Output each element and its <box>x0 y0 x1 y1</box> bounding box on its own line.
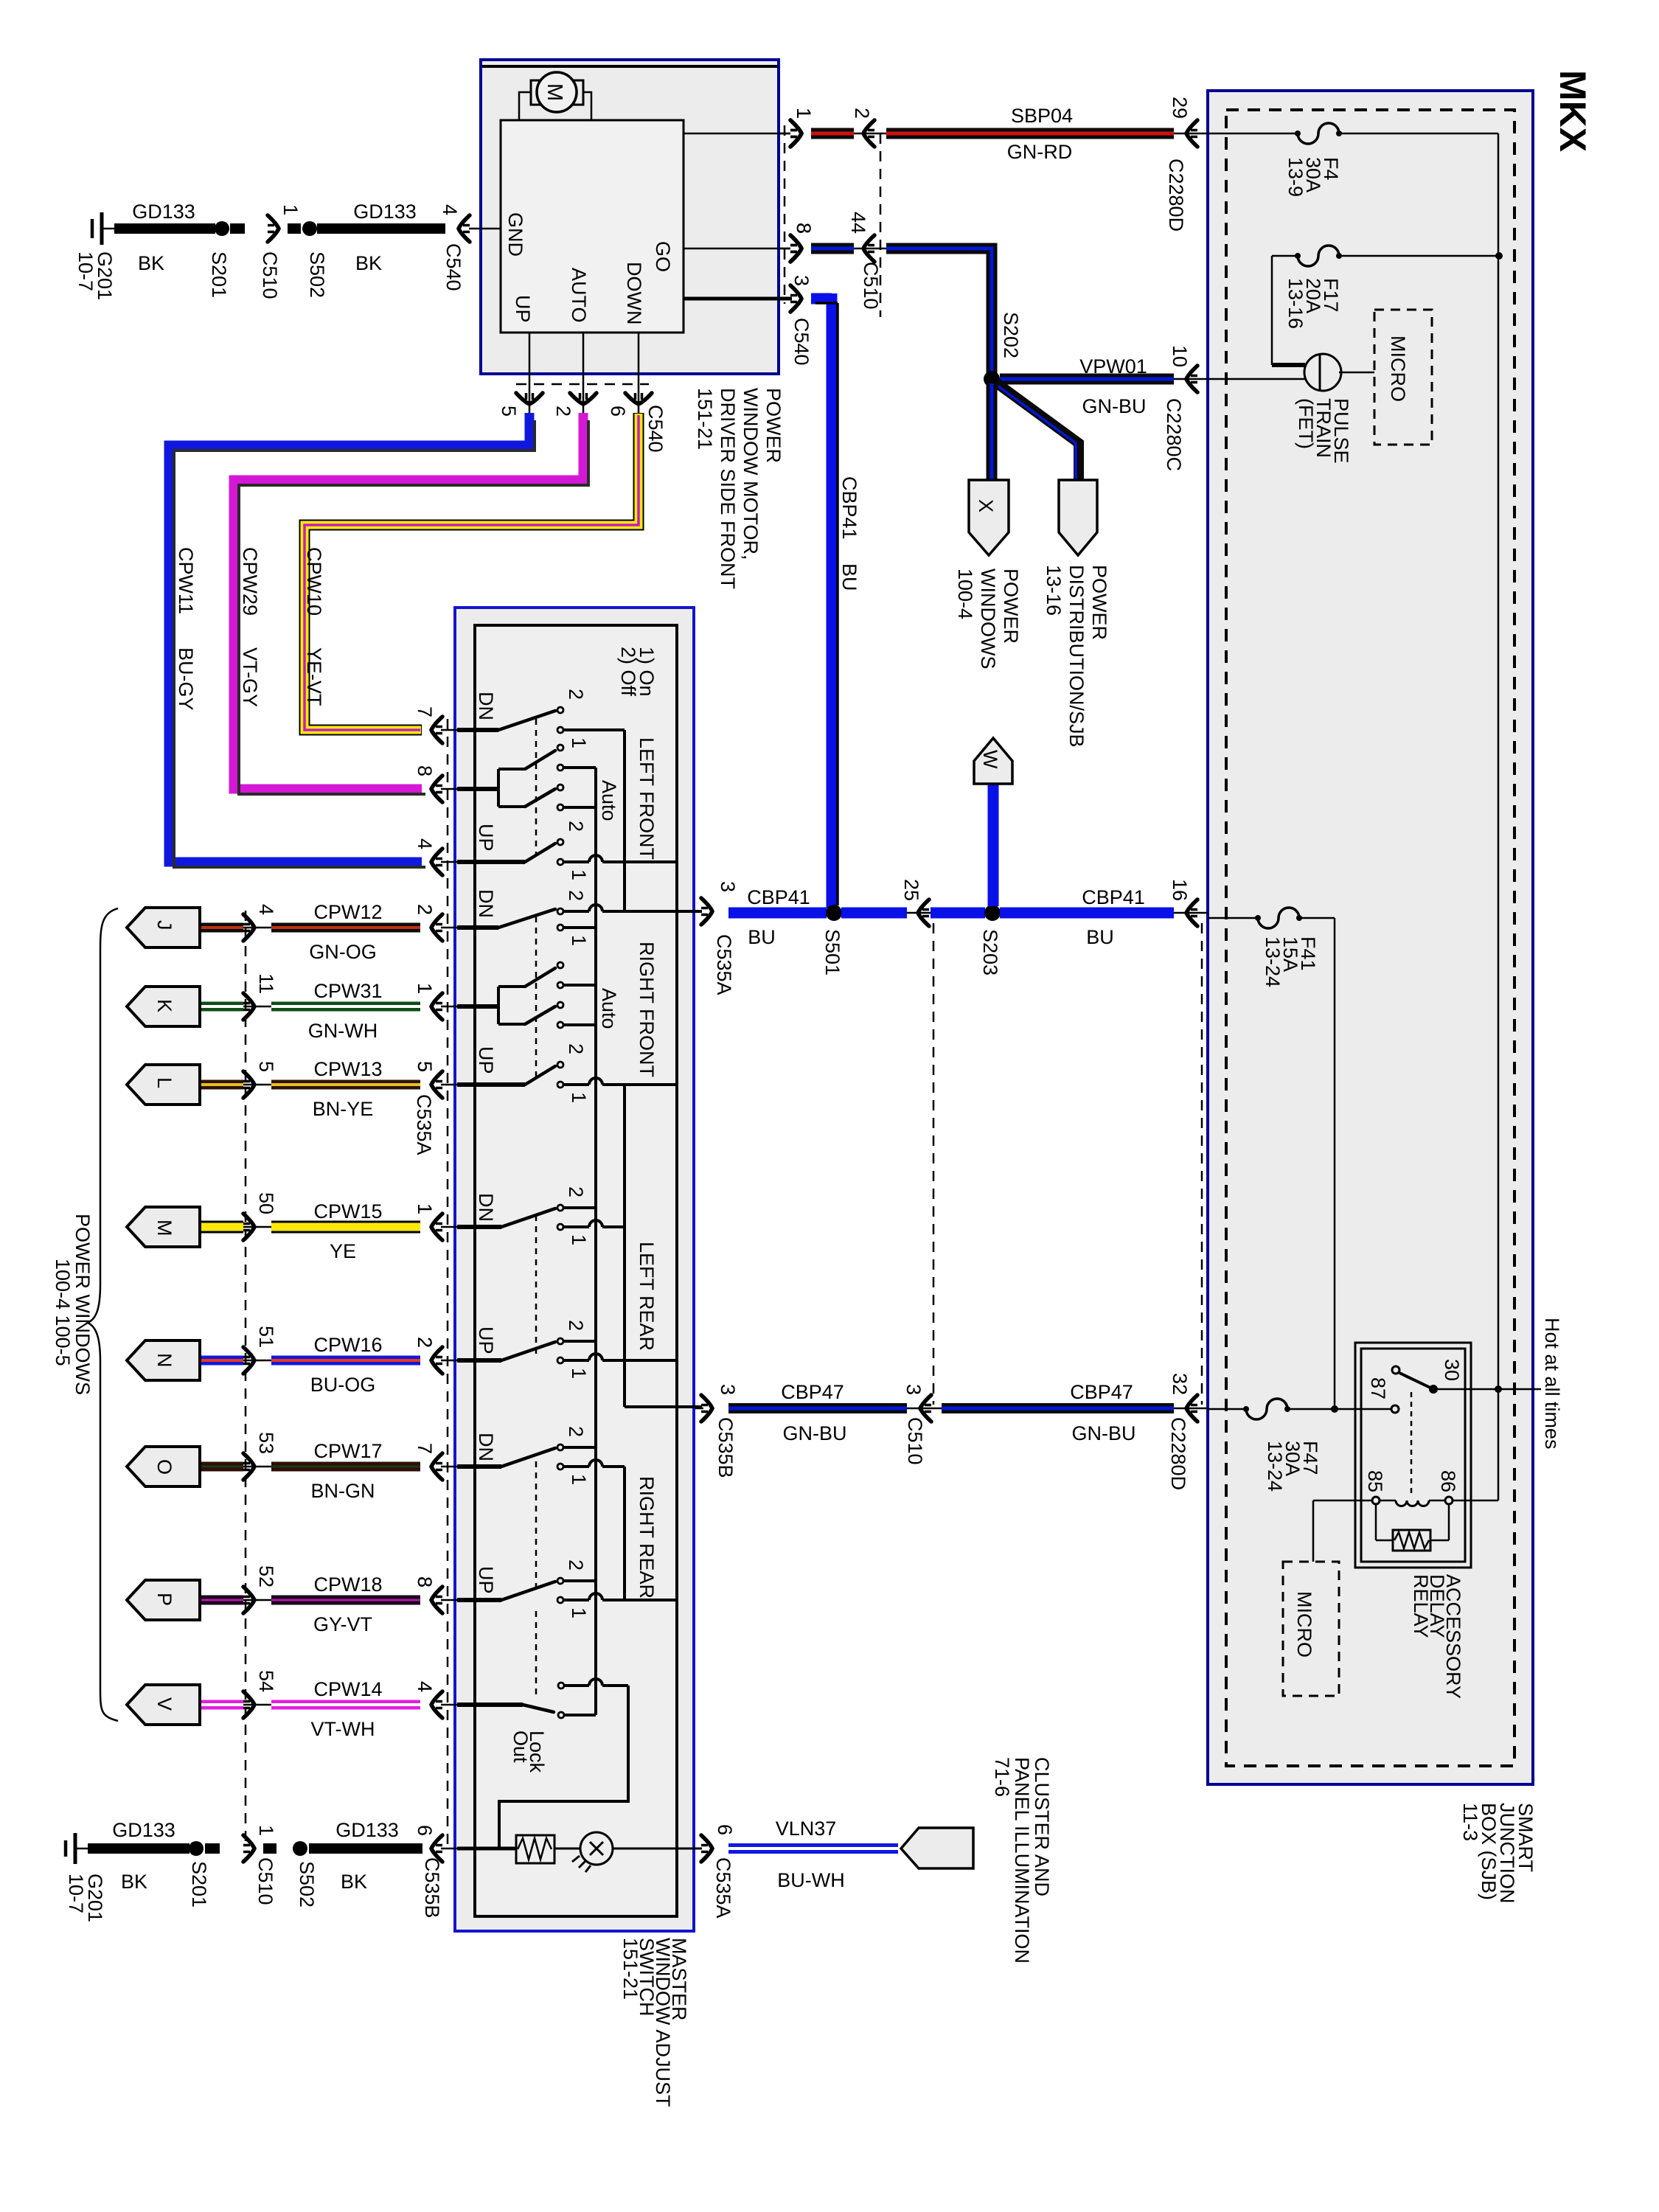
svg-text:6: 6 <box>607 406 629 417</box>
svg-text:1: 1 <box>568 1474 590 1485</box>
svg-text:VT-WH: VT-WH <box>311 1718 375 1740</box>
svg-text:CPW11: CPW11 <box>175 547 197 614</box>
svg-text:1: 1 <box>255 1825 277 1836</box>
svg-text:K: K <box>153 999 175 1012</box>
svg-text:SBP04: SBP04 <box>1011 105 1073 127</box>
svg-text:MKX: MKX <box>1552 70 1593 152</box>
svg-text:DN: DN <box>475 692 497 720</box>
svg-text:CBP41: CBP41 <box>1082 886 1145 908</box>
svg-text:BK: BK <box>121 1871 147 1893</box>
svg-text:GN-BU: GN-BU <box>1082 395 1147 417</box>
svg-text:4: 4 <box>414 1681 436 1692</box>
svg-text:GD133: GD133 <box>112 1819 175 1841</box>
svg-text:POWER WINDOWS: POWER WINDOWS <box>72 1214 94 1395</box>
svg-text:GN-RD: GN-RD <box>1007 141 1073 163</box>
svg-text:2: 2 <box>414 1337 436 1348</box>
svg-text:BU: BU <box>1086 926 1114 948</box>
svg-text:16: 16 <box>1169 879 1191 901</box>
svg-text:5: 5 <box>255 1061 277 1072</box>
svg-text:1: 1 <box>568 869 590 880</box>
svg-text:MICRO: MICRO <box>1387 335 1409 402</box>
svg-text:2: 2 <box>565 1186 587 1197</box>
svg-text:BK: BK <box>341 1871 367 1893</box>
svg-text:CBP41: CBP41 <box>838 476 860 540</box>
svg-text:RIGHT REAR: RIGHT REAR <box>636 1476 658 1599</box>
svg-text:CPW10: CPW10 <box>303 547 325 616</box>
svg-text:100-4 100-5: 100-4 100-5 <box>52 1259 74 1366</box>
svg-text:5: 5 <box>498 406 520 417</box>
svg-text:C540: C540 <box>442 243 465 291</box>
svg-text:BK: BK <box>355 252 382 274</box>
svg-text:4: 4 <box>439 204 461 215</box>
svg-text:UP: UP <box>475 1046 497 1074</box>
svg-text:2: 2 <box>565 1426 587 1437</box>
svg-text:GN-WH: GN-WH <box>308 1020 378 1042</box>
svg-text:X: X <box>975 499 997 512</box>
svg-text:DN: DN <box>475 1433 497 1461</box>
svg-text:YE: YE <box>330 1240 356 1262</box>
svg-text:1: 1 <box>414 983 436 994</box>
svg-text:S502: S502 <box>306 251 328 298</box>
svg-text:10: 10 <box>1169 345 1191 367</box>
svg-text:C2280D: C2280D <box>1165 159 1187 232</box>
svg-text:CPW18: CPW18 <box>313 1573 382 1596</box>
svg-text:32: 32 <box>1169 1373 1191 1395</box>
svg-text:BN-GN: BN-GN <box>311 1480 375 1502</box>
svg-text:8: 8 <box>793 223 815 234</box>
svg-text:85: 85 <box>1364 1470 1386 1492</box>
svg-text:GD133: GD133 <box>353 201 417 223</box>
svg-text:BU-OG: BU-OG <box>310 1374 376 1396</box>
svg-text:C535A: C535A <box>413 1094 435 1155</box>
svg-text:C510: C510 <box>254 1857 276 1905</box>
svg-text:7: 7 <box>414 1443 436 1454</box>
svg-text:5: 5 <box>414 1061 436 1072</box>
svg-text:BK: BK <box>138 252 164 274</box>
svg-text:2: 2 <box>552 406 574 417</box>
svg-text:1: 1 <box>568 935 590 946</box>
svg-text:1: 1 <box>568 1607 590 1618</box>
svg-text:Auto: Auto <box>598 988 620 1029</box>
svg-text:N: N <box>153 1353 175 1368</box>
svg-text:UP: UP <box>475 824 497 852</box>
svg-text:51: 51 <box>255 1326 277 1348</box>
svg-text:3: 3 <box>717 1384 739 1395</box>
svg-text:CBP47: CBP47 <box>781 1381 844 1403</box>
svg-text:MICRO: MICRO <box>1293 1591 1315 1658</box>
svg-text:3: 3 <box>790 275 813 286</box>
svg-text:S202: S202 <box>1000 312 1022 358</box>
svg-text:86: 86 <box>1437 1470 1459 1492</box>
svg-text:GD133: GD133 <box>335 1819 399 1841</box>
svg-text:VLN37: VLN37 <box>776 1818 837 1840</box>
svg-text:W: W <box>979 750 1001 769</box>
svg-text:RIGHT FRONT: RIGHT FRONT <box>636 942 658 1077</box>
svg-text:Hot at all times: Hot at all times <box>1541 1318 1563 1450</box>
svg-text:1: 1 <box>568 737 590 748</box>
svg-text:87: 87 <box>1367 1377 1389 1399</box>
svg-text:LEFT FRONT: LEFT FRONT <box>636 737 658 860</box>
svg-text:LEFT REAR: LEFT REAR <box>636 1242 658 1351</box>
svg-text:2: 2 <box>414 904 436 915</box>
svg-text:C535B: C535B <box>421 1857 443 1919</box>
svg-text:CPW12: CPW12 <box>313 901 382 923</box>
svg-text:2: 2 <box>565 1320 587 1331</box>
svg-text:DOWN: DOWN <box>623 262 645 324</box>
svg-text:AUTO: AUTO <box>568 268 590 323</box>
svg-text:25: 25 <box>900 879 922 901</box>
svg-text:GN-BU: GN-BU <box>783 1422 847 1444</box>
svg-text:1: 1 <box>414 1203 436 1214</box>
svg-text:L: L <box>153 1077 175 1088</box>
svg-text:YE-VT: YE-VT <box>303 647 325 706</box>
svg-text:2: 2 <box>851 108 873 119</box>
svg-text:BU: BU <box>748 926 776 948</box>
svg-text:CPW13: CPW13 <box>313 1058 382 1080</box>
svg-text:BN-YE: BN-YE <box>313 1098 374 1120</box>
svg-text:6: 6 <box>714 1824 736 1835</box>
svg-text:CPW16: CPW16 <box>313 1334 382 1356</box>
svg-text:1: 1 <box>568 1234 590 1245</box>
svg-text:C510: C510 <box>259 251 281 299</box>
svg-text:UP: UP <box>475 1326 497 1354</box>
svg-text:CPW31: CPW31 <box>313 980 382 1002</box>
svg-text:4: 4 <box>414 838 436 849</box>
svg-text:1: 1 <box>568 1092 590 1103</box>
svg-text:1: 1 <box>568 1368 590 1379</box>
svg-text:C510: C510 <box>860 262 882 310</box>
svg-text:CPW14: CPW14 <box>313 1678 382 1700</box>
svg-text:M: M <box>153 1220 175 1237</box>
svg-text:52: 52 <box>255 1565 277 1587</box>
svg-text:GND: GND <box>504 212 526 257</box>
svg-text:DN: DN <box>475 1193 497 1222</box>
svg-text:4: 4 <box>255 904 277 915</box>
svg-text:M: M <box>543 83 566 101</box>
svg-text:1: 1 <box>279 204 302 215</box>
svg-text:GN-BU: GN-BU <box>1072 1422 1136 1444</box>
svg-text:C535A: C535A <box>713 934 735 995</box>
svg-text:2: 2 <box>565 890 587 901</box>
svg-text:3: 3 <box>902 1384 925 1395</box>
svg-text:P: P <box>153 1593 175 1606</box>
svg-text:2: 2 <box>565 1043 587 1054</box>
svg-text:1: 1 <box>793 108 815 119</box>
svg-text:C540: C540 <box>644 405 667 453</box>
svg-text:CBP41: CBP41 <box>747 886 810 908</box>
svg-text:DN: DN <box>475 889 497 918</box>
svg-text:CPW29: CPW29 <box>239 547 261 616</box>
svg-text:V: V <box>153 1697 175 1711</box>
svg-text:O: O <box>153 1459 175 1475</box>
svg-text:C535B: C535B <box>714 1417 737 1478</box>
svg-text:3: 3 <box>717 881 739 892</box>
svg-text:C2280C: C2280C <box>1163 398 1185 471</box>
svg-text:GD133: GD133 <box>132 201 195 223</box>
svg-text:UP: UP <box>512 295 534 323</box>
svg-text:BU-WH: BU-WH <box>777 1869 844 1891</box>
svg-text:S203: S203 <box>979 929 1001 975</box>
svg-text:54: 54 <box>255 1670 277 1692</box>
svg-text:8: 8 <box>414 765 436 776</box>
svg-text:BU-GY: BU-GY <box>175 647 197 711</box>
svg-text:C535A: C535A <box>712 1857 734 1919</box>
svg-text:50: 50 <box>255 1192 277 1214</box>
svg-text:7: 7 <box>414 706 436 717</box>
svg-text:S201: S201 <box>188 1861 210 1907</box>
svg-text:CPW15: CPW15 <box>313 1200 382 1222</box>
svg-text:C540: C540 <box>790 318 813 366</box>
svg-text:CPW17: CPW17 <box>313 1440 382 1462</box>
svg-text:BU: BU <box>838 563 860 591</box>
svg-text:GY-VT: GY-VT <box>313 1613 372 1635</box>
svg-text:GO: GO <box>652 241 674 272</box>
svg-text:VPW01: VPW01 <box>1079 355 1147 378</box>
svg-text:2: 2 <box>565 689 587 700</box>
svg-text:2: 2 <box>565 1559 587 1571</box>
svg-text:C2280D: C2280D <box>1167 1417 1189 1490</box>
svg-text:44: 44 <box>847 212 869 234</box>
svg-text:UP: UP <box>475 1566 497 1594</box>
svg-text:53: 53 <box>255 1432 277 1454</box>
svg-text:6: 6 <box>414 1825 436 1836</box>
svg-text:S502: S502 <box>296 1861 318 1907</box>
svg-text:11: 11 <box>255 973 277 994</box>
svg-text:J: J <box>153 920 175 931</box>
svg-text:29: 29 <box>1169 97 1191 119</box>
svg-text:C510: C510 <box>904 1417 926 1465</box>
svg-text:30: 30 <box>1441 1359 1463 1381</box>
svg-text:GN-OG: GN-OG <box>309 941 377 963</box>
svg-text:S201: S201 <box>208 251 230 298</box>
svg-text:8: 8 <box>414 1576 436 1587</box>
svg-text:1) On2) Off: 1) On2) Off <box>617 647 658 697</box>
svg-text:2: 2 <box>565 821 587 832</box>
svg-text:Auto: Auto <box>598 780 620 821</box>
svg-text:VT-GY: VT-GY <box>239 647 261 707</box>
svg-text:CBP47: CBP47 <box>1070 1381 1133 1403</box>
svg-text:S501: S501 <box>821 929 844 975</box>
